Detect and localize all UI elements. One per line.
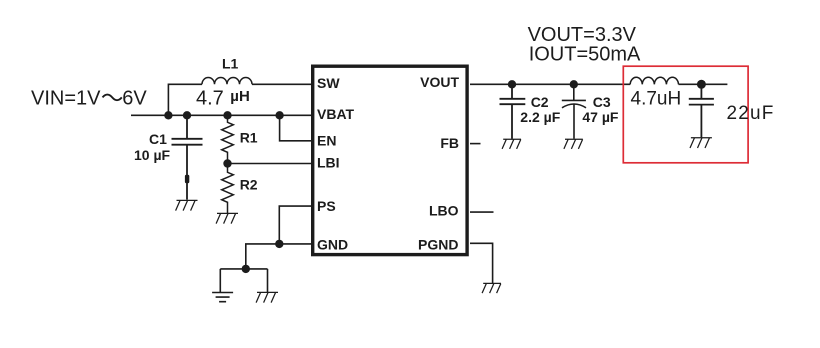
svg-text:LBI: LBI: [317, 155, 340, 171]
junction dot (EN tap): [275, 111, 283, 119]
svg-text:VIN=1V: VIN=1V: [31, 88, 101, 110]
node A junction dot (L1 tap): [164, 111, 172, 119]
junction dot (C1 tap): [183, 111, 191, 119]
ground (earth): [212, 293, 233, 302]
ground (chassis) below R2: [216, 213, 238, 223]
wire VOUT output: [470, 83, 727, 85]
svg-text:LBO: LBO: [429, 202, 459, 218]
svg-text:4.7uH: 4.7uH: [631, 88, 682, 109]
wire FB stub: [470, 143, 481, 145]
svg-text:C3: C3: [593, 94, 611, 110]
wire EN: [280, 115, 311, 141]
svg-text:EN: EN: [317, 132, 336, 148]
svg-text:SW: SW: [317, 75, 340, 91]
svg-text:C2: C2: [531, 94, 549, 110]
svg-text:PS: PS: [317, 198, 336, 214]
svg-text:VBAT: VBAT: [317, 106, 355, 122]
junction dot (R1 tap): [223, 111, 231, 119]
ground (chassis) below output cap: [690, 138, 712, 148]
capacitor 22uF: [689, 84, 714, 137]
wire PS: [279, 206, 311, 244]
resistor R1: [222, 115, 234, 163]
wire to chassis ground: [267, 269, 269, 292]
svg-text:VOUT: VOUT: [420, 74, 459, 90]
svg-text:C1: C1: [149, 131, 167, 147]
ground (chassis) at GND net: [256, 292, 278, 302]
capacitor C2: [500, 84, 526, 139]
wire LBO stub: [470, 211, 494, 213]
svg-text:6V: 6V: [122, 88, 147, 110]
node VIN label: [31, 88, 147, 110]
capacitor C1: [172, 115, 203, 199]
wire VIN input to VBAT pin: [131, 114, 311, 116]
ground (chassis) below C1: [176, 200, 198, 210]
value 4.7 µH: [196, 87, 250, 109]
svg-text:µH: µH: [230, 88, 249, 105]
svg-text:IOUT=50mA: IOUT=50mA: [529, 44, 641, 66]
wire to earth ground: [219, 269, 221, 292]
wire SW branch: [168, 84, 311, 115]
svg-text:GND: GND: [317, 236, 348, 252]
svg-text:10 µF: 10 µF: [134, 147, 171, 163]
svg-text:R1: R1: [240, 130, 258, 146]
red highlight box: [623, 66, 748, 163]
ground (chassis) below C3: [564, 139, 583, 149]
inductor (output filter): [630, 77, 678, 84]
junction dot (C2 tap): [508, 80, 516, 88]
svg-text:2.2 µF: 2.2 µF: [520, 109, 560, 125]
svg-text:R2: R2: [240, 177, 258, 193]
svg-text:4.7: 4.7: [196, 87, 224, 109]
junction dot PS/GND: [275, 240, 283, 248]
svg-text:47 µF: 47 µF: [582, 109, 619, 125]
svg-text:L1: L1: [222, 56, 239, 72]
junction dot (C3 tap): [570, 80, 578, 88]
wire GND pin to ground net: [220, 244, 311, 269]
junction dot (output cap tap): [697, 80, 706, 89]
svg-text:22uF: 22uF: [727, 103, 775, 124]
inductor L1: [202, 78, 252, 85]
svg-text:PGND: PGND: [418, 236, 458, 252]
wire PGND: [470, 243, 493, 283]
capacitor C3 (polarized): [562, 84, 586, 139]
svg-text:FB: FB: [440, 135, 459, 151]
junction dot ground net: [242, 265, 250, 273]
ground (chassis) below C2: [502, 139, 521, 149]
ground (chassis) below PGND: [482, 283, 501, 293]
svg-text:VOUT=3.3V: VOUT=3.3V: [528, 24, 637, 46]
IC U1 body: [313, 66, 467, 254]
wire LBI: [228, 163, 312, 165]
resistor R2: [222, 164, 234, 214]
junction dot R1/R2 (LBI node): [223, 159, 231, 167]
